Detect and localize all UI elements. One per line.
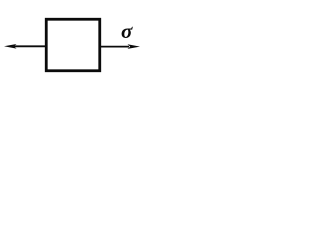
svg-text:σ: σ [121,19,133,43]
